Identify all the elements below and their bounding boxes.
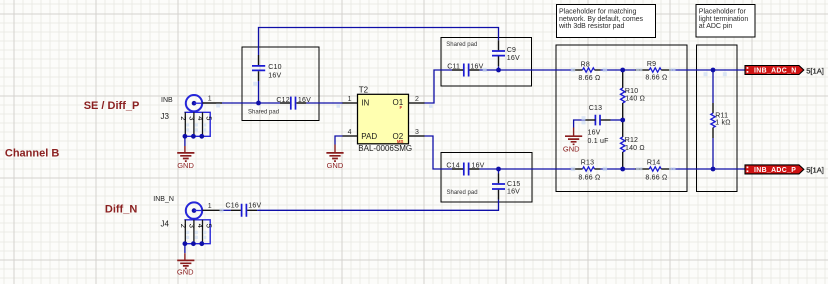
svg-text:Diff_N: Diff_N bbox=[105, 203, 137, 215]
svg-text:R8: R8 bbox=[581, 62, 590, 69]
wire C14 to R13 bbox=[479, 168, 573, 170]
junction node C14/C15 bbox=[496, 167, 501, 172]
capacitor C16 bbox=[226, 202, 262, 216]
svg-text:4: 4 bbox=[196, 224, 205, 228]
resistor R13 bbox=[573, 159, 601, 181]
svg-text:C13: C13 bbox=[589, 105, 602, 112]
wire R14 to port P bbox=[671, 168, 745, 170]
shared pad box 3 bbox=[441, 153, 532, 203]
wire top link C10-C9 bbox=[259, 28, 499, 56]
svg-text:at ADC pin: at ADC pin bbox=[699, 23, 733, 30]
svg-text:C11: C11 bbox=[447, 63, 460, 70]
wire C10 bottom to junction bbox=[258, 81, 260, 103]
junction node C10/C12 bbox=[256, 101, 261, 106]
svg-text:16V: 16V bbox=[472, 163, 485, 170]
termination box bbox=[697, 45, 738, 192]
capacitor C9 bbox=[492, 40, 520, 66]
svg-text:8.66 Ω: 8.66 Ω bbox=[578, 174, 600, 181]
svg-text:5[1A]: 5[1A] bbox=[806, 66, 824, 75]
svg-text:5[1A]: 5[1A] bbox=[806, 166, 824, 175]
svg-text:INB_ADC_P: INB_ADC_P bbox=[754, 167, 796, 174]
svg-text:Channel B: Channel B bbox=[5, 147, 59, 159]
capacitor C12 bbox=[276, 97, 311, 110]
capacitor C15 bbox=[492, 174, 520, 200]
svg-text:3: 3 bbox=[415, 129, 419, 136]
resistor R14 bbox=[635, 159, 671, 181]
svg-text:R14: R14 bbox=[647, 159, 660, 166]
svg-text:2: 2 bbox=[179, 116, 188, 120]
svg-text:T2: T2 bbox=[359, 85, 369, 94]
wire C15 to C16 bbox=[257, 200, 498, 211]
svg-text:with 3dB resistor pad: with 3dB resistor pad bbox=[558, 23, 624, 30]
resistor R12 bbox=[621, 120, 645, 169]
svg-text:3: 3 bbox=[187, 224, 196, 228]
connection ghost marks bbox=[186, 68, 727, 239]
junction node R11 top bbox=[711, 68, 716, 73]
wire T2 pin4 to gnd bbox=[335, 136, 343, 145]
svg-text:16V: 16V bbox=[507, 55, 520, 62]
capacitor C13 bbox=[585, 105, 623, 145]
svg-text:INB_N: INB_N bbox=[153, 196, 174, 203]
junction dots J3 shield bbox=[183, 134, 188, 139]
svg-text:network. By default, comes: network. By default, comes bbox=[559, 16, 644, 23]
svg-text:4: 4 bbox=[196, 116, 205, 120]
svg-text:8.66 Ω: 8.66 Ω bbox=[645, 174, 667, 181]
svg-text:R10: R10 bbox=[625, 88, 638, 95]
note box matching network bbox=[557, 5, 656, 38]
svg-text:5: 5 bbox=[205, 116, 214, 120]
svg-text:INB_ADC_N: INB_ADC_N bbox=[754, 68, 797, 75]
wire T2 pin3 to C14 bbox=[425, 136, 453, 169]
connector J4 bbox=[153, 196, 222, 244]
svg-text:R11: R11 bbox=[715, 113, 728, 120]
svg-text:R13: R13 bbox=[581, 159, 594, 166]
wire J4 shield to gnd bbox=[184, 244, 186, 254]
wire T2 pin2 to C11 bbox=[425, 70, 453, 103]
svg-text:4: 4 bbox=[348, 129, 352, 136]
svg-text:GND: GND bbox=[327, 161, 344, 170]
resistor R8 bbox=[573, 62, 601, 82]
capacitor C11 bbox=[447, 63, 483, 76]
svg-text:C14: C14 bbox=[446, 163, 459, 170]
svg-text:140 Ω: 140 Ω bbox=[625, 96, 645, 103]
svg-text:C16: C16 bbox=[226, 202, 239, 209]
svg-text:light termination: light termination bbox=[699, 16, 749, 23]
svg-text:C9: C9 bbox=[507, 47, 516, 54]
wire J3 shield to gnd bbox=[184, 136, 186, 146]
capacitor C10 bbox=[252, 55, 282, 81]
connector J3 bbox=[161, 95, 223, 136]
svg-text:INB: INB bbox=[161, 97, 173, 104]
shared pad box 1 bbox=[242, 47, 319, 121]
wire junction to C15 bbox=[498, 169, 500, 174]
svg-text:GND: GND bbox=[563, 145, 580, 154]
junction node C9/C11 bbox=[496, 68, 501, 73]
matching network box bbox=[556, 45, 687, 192]
junction node R10 top bbox=[620, 68, 625, 73]
ground J4 bbox=[177, 253, 195, 276]
svg-text:16V: 16V bbox=[507, 189, 520, 196]
svg-text:5: 5 bbox=[205, 224, 214, 228]
resistor R9 bbox=[635, 61, 671, 82]
svg-text:Shared pad: Shared pad bbox=[248, 109, 279, 115]
svg-text:16V: 16V bbox=[470, 63, 483, 70]
svg-text:GND: GND bbox=[177, 161, 194, 170]
svg-text:R9: R9 bbox=[647, 61, 656, 68]
svg-text:C15: C15 bbox=[507, 181, 520, 188]
ground T2 pad bbox=[326, 145, 343, 170]
svg-text:0.1 uF: 0.1 uF bbox=[588, 138, 609, 145]
junction node R11 bottom bbox=[711, 167, 716, 172]
wire R8 to R9 bbox=[601, 69, 636, 71]
svg-text:3: 3 bbox=[187, 116, 196, 120]
junction node R10/R12/C13 bbox=[620, 118, 625, 123]
svg-text:Placeholder for: Placeholder for bbox=[699, 8, 747, 15]
port INB_ADC_N bbox=[745, 66, 804, 75]
svg-text:140 Ω: 140 Ω bbox=[625, 145, 645, 152]
resistor R10 bbox=[621, 70, 646, 120]
junction dots J4 shield bbox=[183, 241, 188, 246]
svg-text:8.66 Ω: 8.66 Ω bbox=[645, 75, 667, 82]
svg-text:1: 1 bbox=[208, 203, 212, 210]
resistor R11 bbox=[711, 70, 731, 169]
svg-text:16V: 16V bbox=[248, 202, 261, 209]
junction node R12 bottom bbox=[620, 167, 625, 172]
wire J3 to C12 bbox=[222, 102, 280, 104]
svg-text:16V: 16V bbox=[298, 97, 311, 104]
wire C13 to gnd bbox=[574, 120, 585, 128]
svg-text:2: 2 bbox=[179, 224, 188, 228]
svg-text:GND: GND bbox=[177, 268, 194, 277]
wire C12 to T2 pin1 bbox=[306, 102, 343, 104]
capacitor C14 bbox=[446, 163, 484, 176]
svg-text:PAD: PAD bbox=[361, 132, 377, 141]
svg-text:1: 1 bbox=[208, 96, 212, 103]
svg-text:J3: J3 bbox=[161, 112, 170, 121]
svg-text:Shared pad: Shared pad bbox=[446, 42, 477, 48]
svg-text:C12: C12 bbox=[276, 97, 289, 104]
svg-text:J4: J4 bbox=[161, 219, 170, 228]
ground C13 bbox=[563, 128, 582, 154]
wire R13 to R14 bbox=[601, 168, 636, 170]
svg-text:Placeholder for matching: Placeholder for matching bbox=[559, 8, 637, 15]
svg-text:16V: 16V bbox=[588, 129, 601, 136]
port INB_ADC_P bbox=[745, 165, 804, 174]
svg-text:IN: IN bbox=[361, 99, 369, 108]
svg-text:8.66 Ω: 8.66 Ω bbox=[578, 75, 600, 82]
svg-text:1: 1 bbox=[348, 96, 352, 103]
note box light termination bbox=[696, 5, 755, 38]
svg-text:F: F bbox=[400, 105, 403, 110]
wire C9 bottom bbox=[498, 66, 500, 70]
svg-text:2: 2 bbox=[415, 96, 419, 103]
svg-text:SE / Diff_P: SE / Diff_P bbox=[84, 100, 140, 112]
ground J3 bbox=[177, 146, 194, 170]
wire C16 to J4 bbox=[222, 209, 231, 211]
wire R9 to port N bbox=[671, 69, 745, 71]
shared pad box 2 bbox=[441, 38, 532, 87]
svg-text:BAL-0006SMG: BAL-0006SMG bbox=[358, 144, 412, 153]
wire C11 to R8 bbox=[479, 69, 573, 71]
transformer T2 bbox=[343, 85, 425, 153]
svg-text:Shared pad: Shared pad bbox=[447, 190, 478, 196]
svg-text:C10: C10 bbox=[268, 64, 281, 71]
svg-text:16V: 16V bbox=[268, 72, 281, 79]
svg-text:1 kΩ: 1 kΩ bbox=[715, 120, 730, 127]
svg-text:R12: R12 bbox=[625, 137, 638, 144]
